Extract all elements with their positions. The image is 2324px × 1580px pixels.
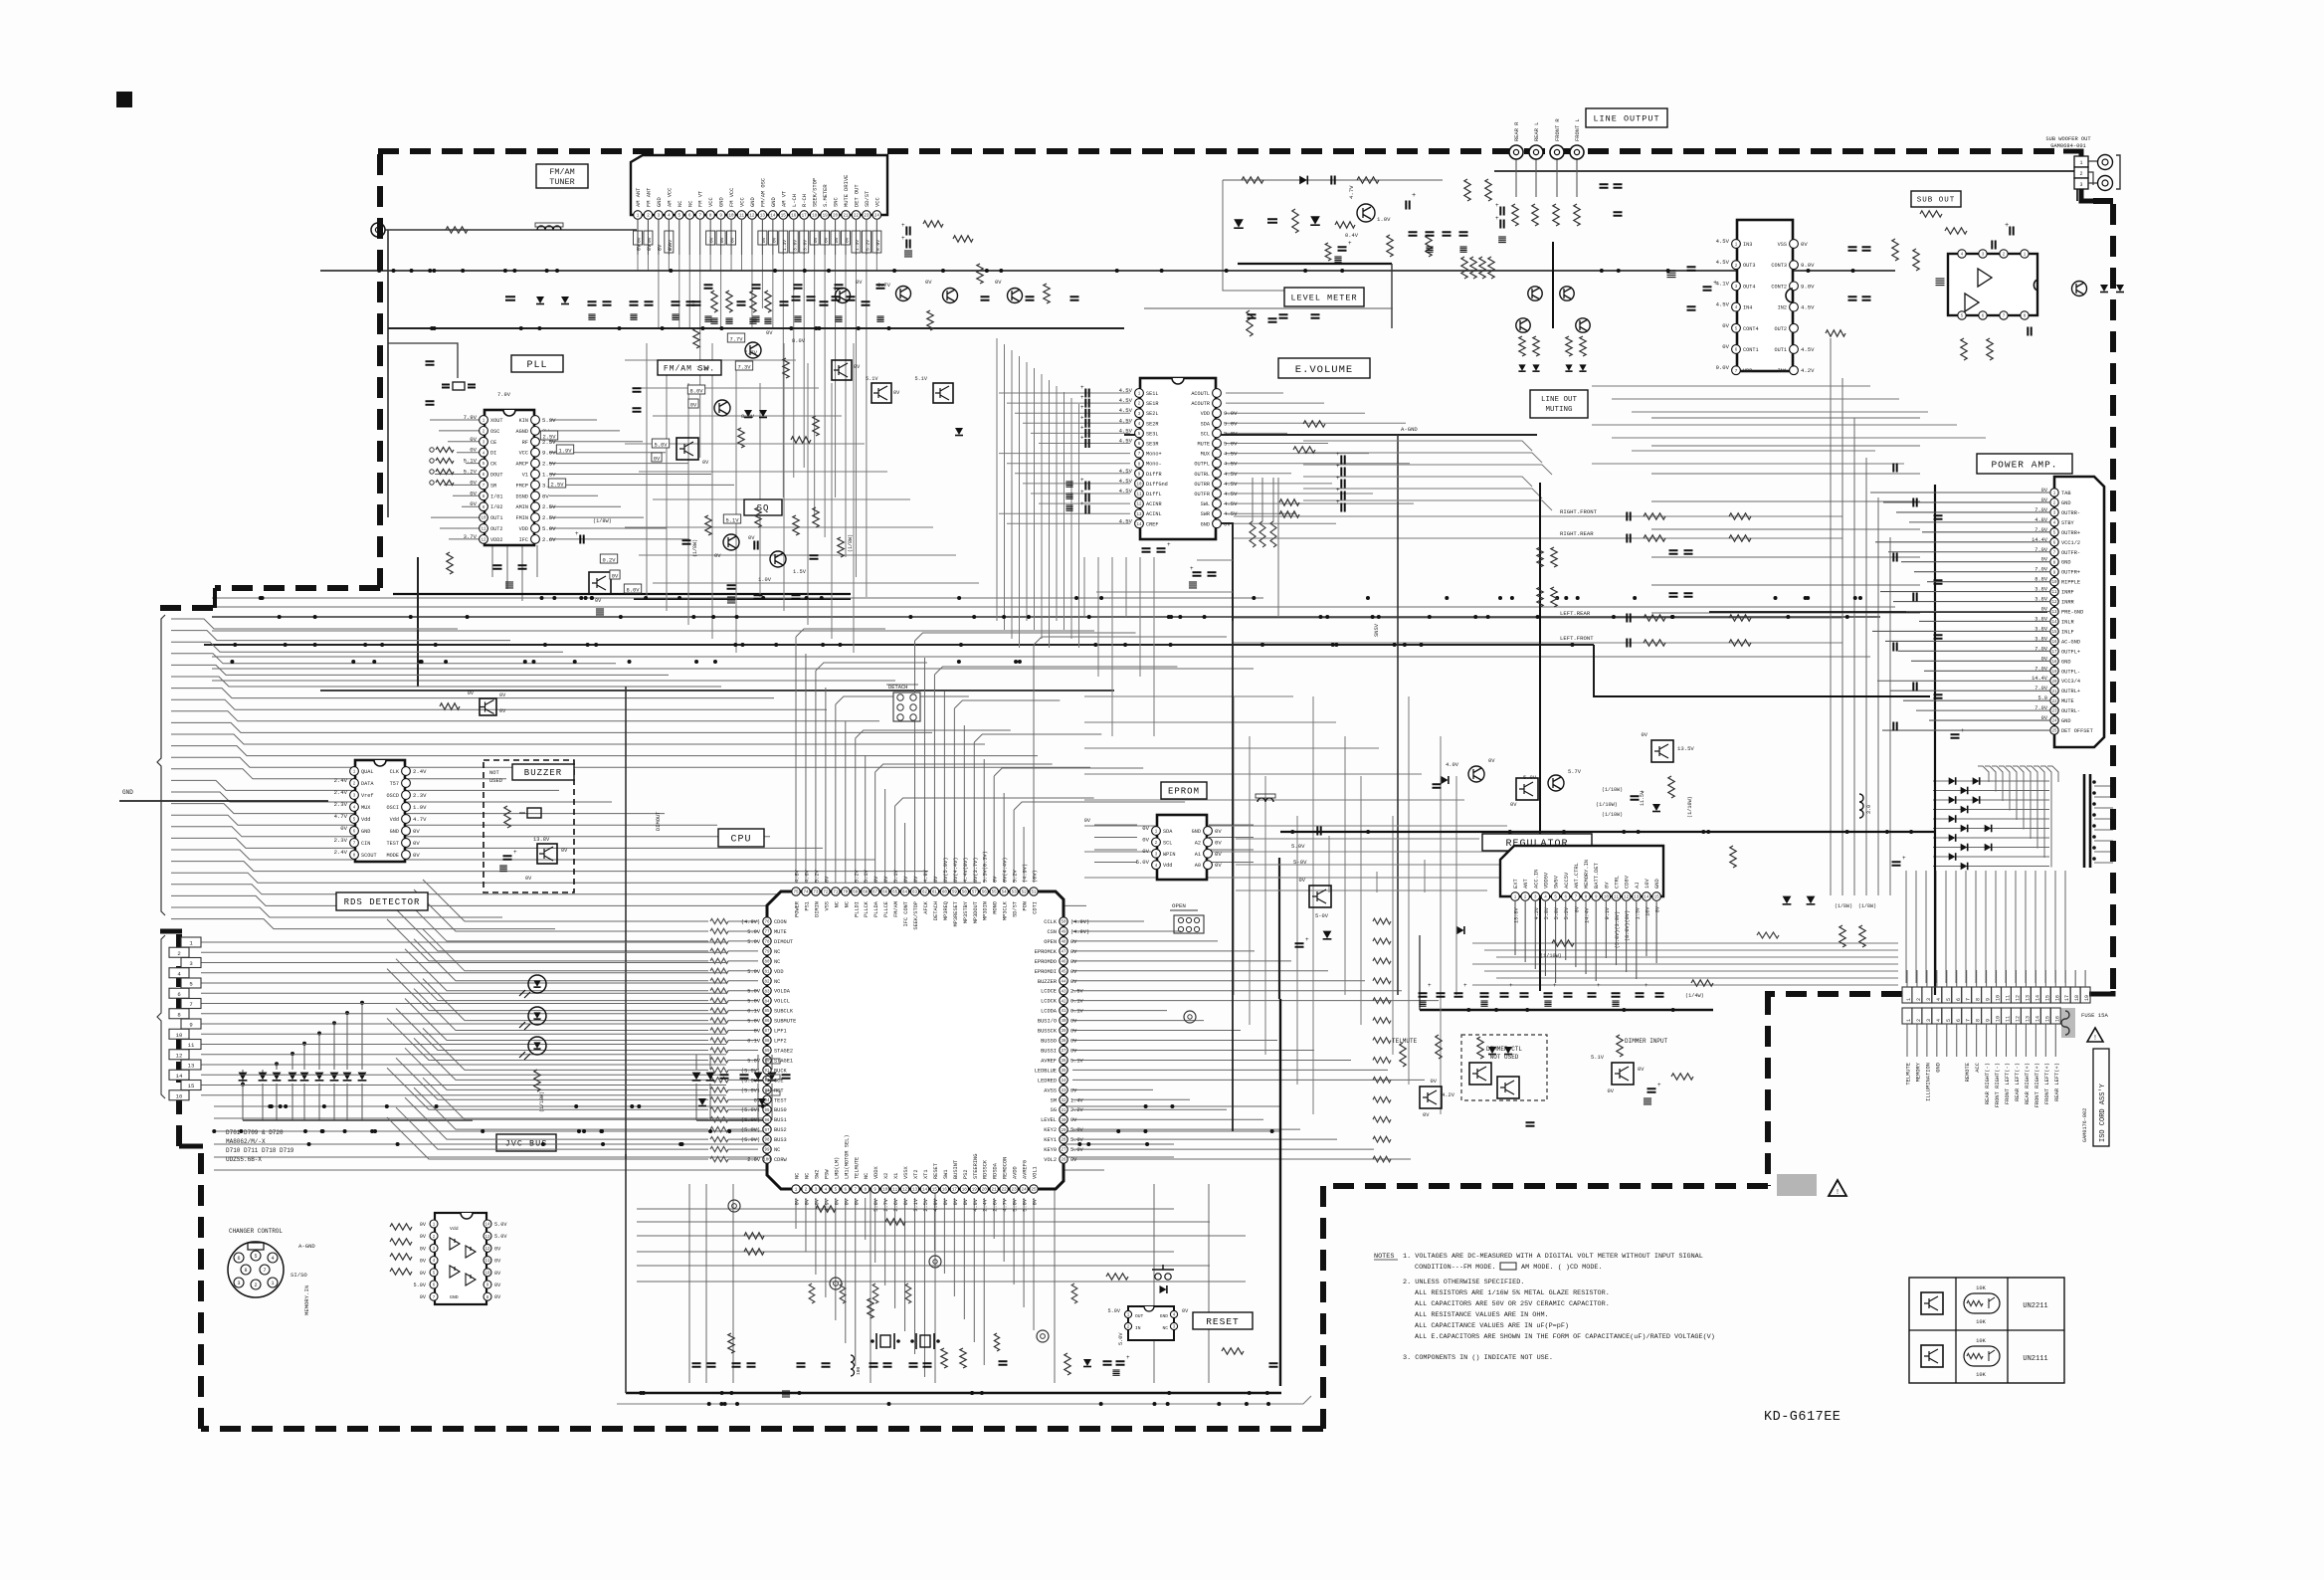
svg-text:4: 4 xyxy=(1936,1019,1942,1022)
svg-text:11: 11 xyxy=(892,1189,898,1193)
svg-text:3.6V: 3.6V xyxy=(792,240,798,251)
svg-text:0V: 0V xyxy=(1070,1117,1077,1123)
resistor xyxy=(711,291,717,312)
dashed border right upper xyxy=(2093,198,2113,204)
boxed tr xyxy=(677,438,698,460)
capacitor xyxy=(797,1363,806,1366)
svg-text:0.1V: 0.1V xyxy=(747,1009,761,1015)
svg-text:5: 5 xyxy=(189,981,192,988)
svg-text:4.5V: 4.5V xyxy=(1224,471,1238,478)
svg-text:INRR: INRR xyxy=(2061,600,2075,606)
svg-text:+: + xyxy=(1495,202,1499,209)
svg-text:DIMOUT: DIMOUT xyxy=(774,939,793,945)
svg-text:SWL: SWL xyxy=(1201,501,1210,507)
svg-text:0V: 0V xyxy=(903,876,909,883)
svg-text:AM VCC: AM VCC xyxy=(667,188,673,207)
svg-text:(4.9V): (4.9V) xyxy=(1023,864,1029,883)
svg-text:37: 37 xyxy=(1061,1050,1066,1054)
svg-text:OUT1: OUT1 xyxy=(490,515,502,521)
svg-text:CCLK: CCLK xyxy=(1044,919,1058,925)
resistor xyxy=(744,1233,764,1239)
diode xyxy=(1518,364,1525,370)
dashed border under ISO connector xyxy=(1765,991,1902,997)
svg-text:8.0V: 8.0V xyxy=(792,338,806,344)
jack xyxy=(1037,1330,1049,1342)
svg-text:0V: 0V xyxy=(1722,343,1729,350)
wire bus top rail xyxy=(320,270,1895,272)
ecap xyxy=(1085,505,1088,514)
wire bus 2nd rail xyxy=(388,327,1124,329)
resistor xyxy=(1479,257,1485,279)
svg-text:0V: 0V xyxy=(854,1198,860,1205)
wire channel RIGHT.REAR xyxy=(1234,537,1842,539)
svg-text:CHANGER CONTROL: CHANGER CONTROL xyxy=(229,1228,283,1235)
svg-text:+: + xyxy=(575,530,579,537)
svg-text:13.5V: 13.5V xyxy=(1677,745,1694,752)
svg-text:4.9V: 4.9V xyxy=(933,1198,939,1212)
svg-text:I/01: I/01 xyxy=(490,494,502,499)
svg-text:0V: 0V xyxy=(637,237,643,243)
svg-text:13: 13 xyxy=(188,1063,195,1070)
svg-text:2.5V: 2.5V xyxy=(542,514,556,521)
capacitor xyxy=(1934,635,1943,638)
crystal xyxy=(453,382,465,390)
svg-text:0V: 0V xyxy=(1070,959,1077,965)
jack xyxy=(830,1278,842,1289)
svg-text:ALL CAPACITORS ARE 50V OR 25V: ALL CAPACITORS ARE 50V OR 25V CERAMIC CA… xyxy=(1415,1300,1610,1308)
svg-text:0V: 0V xyxy=(953,1198,959,1205)
resistor xyxy=(1512,204,1518,226)
caps under pll xyxy=(493,565,502,568)
caps xyxy=(981,296,990,299)
svg-text:0V: 0V xyxy=(494,1259,501,1265)
svg-text:1: 1 xyxy=(1906,1019,1912,1022)
svg-text:5.1V: 5.1V xyxy=(915,376,928,382)
svg-text:0V: 0V xyxy=(748,535,755,541)
svg-text:5-0V: 5-0V xyxy=(1293,859,1307,866)
svg-text:0V: 0V xyxy=(993,876,999,883)
svg-text:0.1V: 0.1V xyxy=(747,1039,761,1045)
svg-text:EPROMDI: EPROMDI xyxy=(1035,969,1057,975)
svg-text:DSND: DSND xyxy=(516,494,528,499)
svg-text:MP3CLK: MP3CLK xyxy=(1003,900,1009,920)
svg-text:9.0V: 9.0V xyxy=(1801,283,1815,290)
svg-text:96: 96 xyxy=(764,1119,770,1123)
svg-text:12: 12 xyxy=(1624,896,1630,900)
svg-text:2.6V: 2.6V xyxy=(542,536,556,543)
svg-text:LMD(LM): LMD(LM) xyxy=(834,1157,840,1179)
svg-text:95: 95 xyxy=(764,1109,770,1113)
caps xyxy=(426,361,435,364)
svg-text:VOLCL: VOLCL xyxy=(774,999,790,1005)
svg-text:REAR LEFT(+): REAR LEFT(+) xyxy=(2054,1063,2060,1101)
svg-text:RF: RF xyxy=(522,440,528,446)
svg-text:GND: GND xyxy=(390,829,399,835)
svg-text:+: + xyxy=(1553,982,1557,989)
svg-text:0V: 0V xyxy=(709,237,715,243)
capacitor xyxy=(1459,232,1468,235)
svg-text:5.0V: 5.0V xyxy=(1224,430,1238,437)
svg-text:DiffR: DiffR xyxy=(1146,472,1162,478)
svg-text:11: 11 xyxy=(1614,896,1620,900)
svg-text:GND: GND xyxy=(2061,718,2071,724)
res xyxy=(1691,980,1713,986)
svg-text:VCC: VCC xyxy=(708,197,714,207)
svg-text:80: 80 xyxy=(764,960,770,964)
svg-text:AFCK: AFCK xyxy=(923,900,929,914)
svg-text:SNSV: SNSV xyxy=(1374,623,1380,637)
capacitor xyxy=(1893,643,1896,652)
svg-text:1.3V: 1.3V xyxy=(542,472,556,479)
svg-text:BUCK: BUCK xyxy=(774,1068,788,1074)
svg-text:5.1V: 5.1V xyxy=(864,869,870,883)
svg-text:13: 13 xyxy=(2025,995,2031,1001)
svg-text:18: 18 xyxy=(962,1189,968,1193)
svg-text:(1/8W): (1/8W) xyxy=(1835,903,1852,909)
wire channel LEFT.REAR xyxy=(1234,617,1842,619)
wire v xyxy=(1054,1184,1056,1383)
ecap xyxy=(1500,207,1503,216)
svg-text:SEEK/STOP: SEEK/STOP xyxy=(913,901,919,930)
svg-text:67: 67 xyxy=(872,891,878,895)
svg-text:42: 42 xyxy=(1061,1000,1066,1004)
svg-text:VSS: VSS xyxy=(1778,242,1787,248)
svg-text:1: 1 xyxy=(1906,998,1912,1001)
BUZZER dashed box xyxy=(484,760,574,892)
gnd xyxy=(1936,279,1945,286)
wire xyxy=(388,343,458,378)
gnd xyxy=(1644,1098,1651,1104)
ecap xyxy=(1951,734,1960,737)
svg-text:5.1V: 5.1V xyxy=(1591,1055,1605,1061)
svg-text:(1/10W): (1/10W) xyxy=(1540,953,1562,959)
svg-text:12: 12 xyxy=(2015,995,2021,1001)
svg-text:GND: GND xyxy=(1201,521,1210,527)
svg-text:0V: 0V xyxy=(1638,1067,1645,1073)
svg-text:LM1(MOTOR SEL): LM1(MOTOR SEL) xyxy=(844,1134,850,1179)
res xyxy=(738,428,744,448)
svg-text:5.0V: 5.0V xyxy=(747,929,761,935)
power amp diode matrix xyxy=(1933,780,2049,782)
resistor xyxy=(390,1254,412,1260)
wire thick x1548 xyxy=(1539,483,1541,991)
capacitor xyxy=(1443,232,1452,235)
svg-text:XOUT: XOUT xyxy=(490,418,502,424)
svg-text:+: + xyxy=(1336,498,1340,505)
svg-text:0V: 0V xyxy=(1070,979,1077,985)
svg-text:0V: 0V xyxy=(1224,520,1231,527)
svg-text:EPROMCK: EPROMCK xyxy=(1035,949,1058,955)
svg-text:0V: 0V xyxy=(856,280,863,286)
resistor xyxy=(1537,547,1543,567)
svg-text:53: 53 xyxy=(1012,891,1018,895)
svg-text:11: 11 xyxy=(481,528,486,532)
svg-text:OUTFL-: OUTFL- xyxy=(2061,669,2080,675)
wire black xyxy=(417,557,419,687)
svg-text:10K: 10K xyxy=(1976,1319,1986,1325)
svg-text:29: 29 xyxy=(1061,1129,1066,1133)
svg-text:1.0V: 1.0V xyxy=(1377,216,1391,223)
svg-text:50: 50 xyxy=(1061,921,1066,925)
resistor xyxy=(1580,336,1586,356)
boxed tr xyxy=(1651,740,1673,762)
svg-text:!: ! xyxy=(2093,1035,2097,1043)
svg-text:D710 D711 D718 D719: D710 D711 D718 D719 xyxy=(226,1147,294,1154)
dashed border left step xyxy=(179,1144,203,1149)
boxed transistor xyxy=(1497,1077,1519,1098)
FM/AM SW label box xyxy=(658,360,721,375)
svg-text:STAGE2: STAGE2 xyxy=(774,1048,793,1054)
svg-text:0V(4.4V): 0V(4.4V) xyxy=(953,858,959,883)
wire channel LEFT.FRONT xyxy=(1234,642,1842,644)
svg-text:11: 11 xyxy=(739,215,745,219)
svg-text:10V: 10V xyxy=(1645,879,1650,889)
svg-text:4.5V: 4.5V xyxy=(1801,304,1815,311)
capacitor xyxy=(752,285,761,288)
svg-text:7.7V: 7.7V xyxy=(730,336,744,342)
svg-text:0V: 0V xyxy=(903,1198,909,1205)
svg-text:CE: CE xyxy=(490,440,496,446)
resistor xyxy=(744,1249,764,1255)
svg-text:5.0V: 5.0V xyxy=(1224,441,1238,448)
svg-text:CPU: CPU xyxy=(730,835,751,846)
resistor xyxy=(765,291,771,312)
wire bus lower xyxy=(214,1117,786,1119)
wire bus dark2 xyxy=(212,616,1880,618)
svg-text:XT1: XT1 xyxy=(923,1169,929,1179)
svg-text:7.9V: 7.9V xyxy=(497,392,511,398)
diode xyxy=(1310,216,1320,224)
svg-text:SE3L: SE3L xyxy=(1146,431,1158,437)
svg-text:13: 13 xyxy=(2051,611,2057,615)
svg-text:NC: NC xyxy=(774,949,780,955)
cap/gnd xyxy=(603,301,612,304)
transistor xyxy=(943,289,958,303)
svg-text:CLK: CLK xyxy=(390,769,400,775)
svg-text:SCL: SCL xyxy=(1163,840,1172,846)
small circles xyxy=(430,448,434,452)
svg-text:4.5V: 4.5V xyxy=(1224,500,1238,507)
svg-text:0V: 0V xyxy=(470,490,477,496)
svg-text:21: 21 xyxy=(992,1189,998,1193)
ecap xyxy=(1406,201,1409,210)
svg-text:PS2: PS2 xyxy=(963,1169,969,1179)
svg-text:TELMUTE: TELMUTE xyxy=(1392,1038,1418,1045)
svg-text:10: 10 xyxy=(1996,995,2002,1001)
svg-text:(1/8W): (1/8W) xyxy=(593,518,612,524)
resistor xyxy=(1553,204,1559,226)
svg-text:FM/AM: FM/AM xyxy=(549,167,575,177)
svg-text:SE2R: SE2R xyxy=(1146,421,1158,427)
svg-text:(4.9V): (4.9V) xyxy=(1070,929,1089,935)
svg-text:(5.0V): (5.0V) xyxy=(741,1087,760,1093)
svg-text:REMOTE: REMOTE xyxy=(1965,1063,1971,1082)
resistor xyxy=(1279,511,1299,517)
svg-text:0V: 0V xyxy=(761,237,767,243)
capacitor xyxy=(999,1361,1008,1364)
svg-text:REAR L: REAR L xyxy=(1534,122,1540,141)
svg-text:0V: 0V xyxy=(542,493,549,499)
svg-text:83: 83 xyxy=(764,990,770,994)
svg-text:STEERING: STEERING xyxy=(973,1154,979,1179)
svg-text:0V: 0V xyxy=(470,436,477,443)
svg-text:INLR: INLR xyxy=(2061,619,2075,625)
testpoint xyxy=(929,1256,941,1268)
svg-text:OUT3: OUT3 xyxy=(1743,263,1755,269)
gnd xyxy=(904,251,912,257)
gnd xyxy=(752,316,759,321)
svg-text:10K: 10K xyxy=(1976,1285,1986,1291)
svg-text:VOL1: VOL1 xyxy=(1033,1166,1039,1179)
svg-text:84: 84 xyxy=(764,1000,770,1004)
ecap xyxy=(1295,943,1304,946)
resistor xyxy=(1920,211,1942,217)
svg-text:A2: A2 xyxy=(1195,840,1201,846)
RDS DETECTOR label box xyxy=(336,892,428,910)
svg-text:5.0V: 5.0V xyxy=(1108,1308,1121,1314)
svg-text:32: 32 xyxy=(1061,1099,1066,1103)
svg-text:1.3V: 1.3V xyxy=(1635,906,1641,919)
svg-text:RDSSCK: RDSSCK xyxy=(983,1159,989,1179)
svg-text:VCC: VCC xyxy=(740,197,746,207)
LED D1 xyxy=(528,975,546,993)
svg-text:STBY: STBY xyxy=(2061,520,2075,526)
svg-text:0V: 0V xyxy=(824,876,830,883)
coil xyxy=(537,226,561,230)
svg-text:BUS1: BUS1 xyxy=(774,1117,787,1123)
wire v xyxy=(732,1184,734,1383)
ecap xyxy=(1892,862,1901,865)
dashed border left step3 xyxy=(157,605,213,611)
svg-text:2.3V: 2.3V xyxy=(334,837,348,844)
svg-text:VOL2: VOL2 xyxy=(1044,1157,1057,1163)
svg-text:RIPPLE: RIPPLE xyxy=(2061,580,2080,586)
svg-text:3.6V: 3.6V xyxy=(803,240,809,251)
svg-text:2.4V: 2.4V xyxy=(334,777,348,784)
svg-text:0V: 0V xyxy=(420,1259,427,1265)
vbox xyxy=(652,439,669,448)
res network xyxy=(436,447,454,452)
resistor xyxy=(1826,330,1845,336)
boxed tr xyxy=(1516,778,1538,800)
svg-text:21: 21 xyxy=(843,215,849,219)
wire SQ bottom rail xyxy=(634,598,851,600)
gnd xyxy=(596,609,604,615)
svg-text:(1/10W): (1/10W) xyxy=(539,1091,545,1112)
diodes lower xyxy=(698,1098,706,1105)
wire bus xyxy=(212,606,1895,608)
svg-text:17: 17 xyxy=(2051,651,2057,655)
svg-text:73: 73 xyxy=(813,891,819,895)
cap/gnd xyxy=(645,301,654,304)
svg-text:SDA: SDA xyxy=(1163,829,1173,835)
svg-text:0V: 0V xyxy=(845,237,851,243)
svg-text:GND: GND xyxy=(1160,1313,1169,1319)
capacitor xyxy=(780,301,789,304)
svg-text:OUTRL: OUTRL xyxy=(1194,472,1210,478)
ecap ladder right xyxy=(1341,456,1344,465)
svg-text:27: 27 xyxy=(1061,1149,1066,1153)
svg-text:MODE: MODE xyxy=(387,853,399,859)
resistor xyxy=(1106,1274,1128,1280)
svg-text:4.5V: 4.5V xyxy=(1119,438,1133,445)
svg-text:4.0V: 4.0V xyxy=(1446,762,1459,768)
svg-text:RIGHT.FRONT: RIGHT.FRONT xyxy=(1560,508,1598,515)
svg-text:(5.0V): (5.0V) xyxy=(741,1117,760,1123)
res xyxy=(693,328,699,348)
tr xyxy=(1468,766,1484,782)
svg-text:10K: 10K xyxy=(1976,1372,1986,1378)
res xyxy=(953,236,973,242)
gnd xyxy=(876,316,883,321)
svg-text:VCC: VCC xyxy=(519,451,528,457)
jumper xyxy=(766,1059,780,1064)
svg-text:NC: NC xyxy=(844,901,850,907)
svg-text:(8.0V)(0V): (8.0V)(0V) xyxy=(1625,910,1631,941)
gnd xyxy=(794,316,801,321)
capacitor xyxy=(1862,296,1871,299)
svg-text:0V: 0V xyxy=(1142,825,1149,832)
svg-text:SE2L: SE2L xyxy=(1146,411,1158,417)
res xyxy=(705,515,711,535)
svg-text:VSS: VSS xyxy=(824,901,830,911)
svg-text:39: 39 xyxy=(1061,1030,1066,1034)
svg-text:IN: IN xyxy=(1135,1325,1141,1331)
diode xyxy=(1299,176,1307,185)
res xyxy=(813,507,819,527)
svg-text:REAR LEFT(-): REAR LEFT(-) xyxy=(2015,1063,2021,1101)
CPU top pin fan xyxy=(796,629,885,883)
svg-text:12: 12 xyxy=(2051,601,2057,605)
svg-text:4.5V: 4.5V xyxy=(1716,301,1730,308)
resistor xyxy=(1519,336,1525,356)
boxed transistor mid xyxy=(480,698,496,715)
svg-text:74: 74 xyxy=(803,891,809,895)
svg-text:SE3R: SE3R xyxy=(1146,442,1158,448)
svg-text:63: 63 xyxy=(912,891,918,895)
svg-text:SR: SR xyxy=(490,483,496,489)
caps xyxy=(754,541,757,550)
res xyxy=(1668,776,1674,798)
capacitor xyxy=(1627,534,1630,543)
caps xyxy=(727,585,736,588)
gnd xyxy=(704,316,711,321)
svg-text:+: + xyxy=(1336,487,1340,494)
svg-text:40: 40 xyxy=(1061,1020,1066,1024)
svg-text:SDA: SDA xyxy=(1201,421,1211,427)
transistor sub out xyxy=(2072,282,2087,296)
svg-text:+: + xyxy=(901,222,905,229)
svg-text:20: 20 xyxy=(2051,681,2057,685)
wire xyxy=(1094,837,1137,839)
transistor line mute xyxy=(1516,318,1530,332)
wire xyxy=(1277,478,1279,617)
diode xyxy=(955,428,963,435)
svg-text:AVSS: AVSS xyxy=(1044,1087,1057,1093)
svg-text:AM ANT: AM ANT xyxy=(636,187,642,207)
res xyxy=(838,537,844,557)
svg-text:0V: 0V xyxy=(1215,862,1222,869)
txt xyxy=(723,514,740,523)
svg-text:(1/8W): (1/8W) xyxy=(848,534,854,552)
svg-text:FRONT R: FRONT R xyxy=(1555,118,1561,141)
svg-text:CREF: CREF xyxy=(1146,521,1158,527)
svg-text:10: 10 xyxy=(882,1189,888,1193)
wire v xyxy=(1153,1184,1155,1383)
svg-text:0V: 0V xyxy=(844,1198,850,1205)
svg-text:0V: 0V xyxy=(1182,1308,1189,1314)
svg-text:MEMORY.IN: MEMORY.IN xyxy=(1584,860,1590,889)
